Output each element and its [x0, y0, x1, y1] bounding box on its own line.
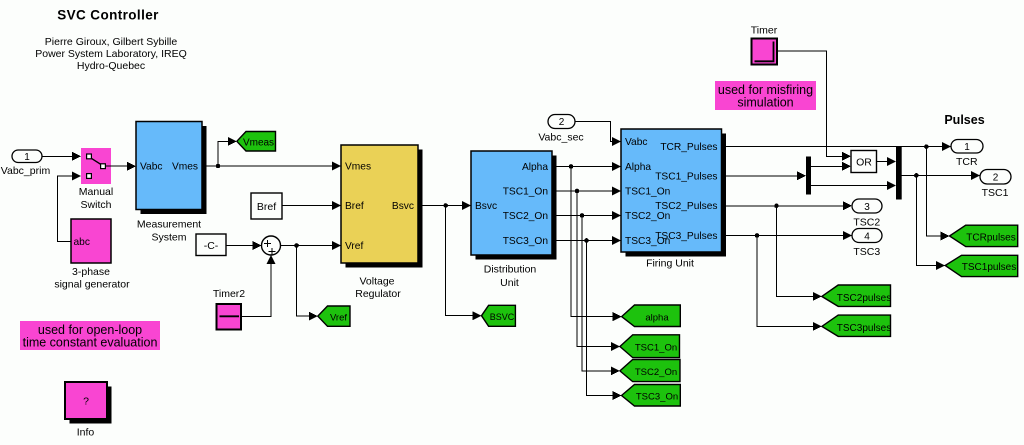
goto tag BSVC — [482, 305, 516, 326]
svg-text:Distribution: Distribution — [484, 264, 537, 276]
svg-text:TSC2_On: TSC2_On — [635, 367, 677, 378]
wire oval1 to manual switch in1 — [42, 152, 81, 161]
svg-text:Bsvc: Bsvc — [475, 201, 497, 212]
goto tag TSC3_On — [622, 385, 681, 407]
svg-text:2: 2 — [993, 172, 999, 183]
wire Bref to voltage regulator — [282, 201, 341, 210]
mux bar2 — [896, 146, 902, 200]
goto tag alpha — [622, 305, 681, 327]
svg-text:System: System — [151, 232, 186, 244]
svg-text:Voltage: Voltage — [359, 275, 394, 287]
wire voltage regulator Bsvc to distribution unit, branch to BSVC tag — [418, 201, 482, 320]
svg-text:Pierre Giroux, Gilbert Sybille: Pierre Giroux, Gilbert Sybille — [45, 36, 178, 48]
svg-text:TSC2_On: TSC2_On — [503, 211, 548, 222]
svg-text:TSC1: TSC1 — [982, 187, 1009, 199]
wire abc generator to manual switch in2 — [58, 172, 82, 242]
svg-text:TSC2_Pulses: TSC2_Pulses — [655, 201, 717, 212]
wire distribution Alpha to firing unit, branch to alpha tag — [552, 162, 622, 321]
svg-text:TSC3_On: TSC3_On — [503, 236, 548, 247]
svg-text:TSC1pulses: TSC1pulses — [962, 262, 1016, 273]
input port 1 Vabc_prim — [1, 150, 51, 177]
svg-text:TCR: TCR — [956, 156, 978, 168]
svg-text:Bref: Bref — [257, 201, 276, 213]
svg-text:Vref: Vref — [330, 312, 347, 323]
svg-text:simulation: simulation — [737, 96, 793, 110]
svg-text:BSVC: BSVC — [490, 312, 515, 322]
svg-text:Vmeas: Vmeas — [243, 137, 274, 148]
goto tag TSC1_On — [620, 335, 680, 358]
wire timer to OR input1 — [778, 51, 852, 161]
timer2 block — [213, 288, 245, 330]
output port 4 TSC3 — [852, 229, 882, 259]
svg-text:Vabc: Vabc — [140, 162, 162, 173]
wire bar1 out1 to OR input2 — [811, 162, 851, 171]
svg-text:-C-: -C- — [204, 240, 219, 252]
constant block -C- — [196, 234, 226, 256]
measurement system block — [136, 122, 207, 244]
svg-text:TSC1_On: TSC1_On — [635, 343, 677, 354]
wire bar2 to out2 TSC1, branch to TSC1pulses tag — [902, 171, 980, 270]
goto tag TCRpulses — [950, 225, 1018, 246]
svg-text:TSC2: TSC2 — [853, 217, 880, 229]
wire -C- to sum — [226, 241, 262, 250]
wire distribution TSC1_On to firing unit, branch to TSC1_On tag — [552, 187, 621, 352]
wire oval2 to firing unit Vabc — [575, 121, 621, 146]
svg-text:Info: Info — [77, 427, 95, 439]
svg-text:SVC Controller: SVC Controller — [57, 8, 159, 23]
svg-text:TSC1_On: TSC1_On — [625, 187, 670, 198]
timer block — [751, 25, 778, 65]
wire distribution TSC2_On to firing unit, branch to TSC2_On tag — [552, 211, 621, 375]
svg-text:1: 1 — [964, 142, 970, 153]
svg-text:TCR_Pulses: TCR_Pulses — [660, 142, 717, 153]
svg-text:Measurement: Measurement — [137, 219, 201, 231]
goto tag Vref — [318, 306, 350, 326]
annotation used for misfiring simulation — [715, 81, 816, 110]
svg-text:abc: abc — [74, 237, 90, 248]
wire firing TSC3_Pulses to out4 TSC3, branch to TSC3pulses tag — [722, 231, 853, 331]
svg-text:Vabc_sec: Vabc_sec — [538, 131, 583, 143]
wire OR out to mux bar2 — [877, 157, 897, 166]
svg-text:Alpha: Alpha — [522, 162, 548, 173]
firing unit block — [621, 129, 726, 270]
svg-text:signal generator: signal generator — [54, 279, 130, 291]
svg-text:TSC2pulses: TSC2pulses — [837, 293, 891, 304]
credits text — [35, 36, 187, 72]
manual switch — [79, 148, 113, 211]
goto tag TSC2pulses — [822, 285, 891, 306]
svg-text:Power System Laboratory, IREQ: Power System Laboratory, IREQ — [35, 48, 187, 60]
svg-text:TSC3pulses: TSC3pulses — [837, 323, 891, 334]
svg-text:alpha: alpha — [645, 313, 669, 324]
svg-text:Switch: Switch — [81, 199, 112, 211]
svg-text:Regulator: Regulator — [355, 288, 401, 300]
svg-text:3-phase: 3-phase — [72, 266, 110, 278]
voltage regulator block — [341, 145, 423, 300]
wire sum to voltage regulator Vref, branch to Vref tag — [281, 241, 342, 321]
wire manual switch out to measurement system — [106, 162, 136, 171]
input port 2 Vabc_sec — [538, 115, 583, 144]
constant block Bref — [251, 193, 282, 219]
wire timer2 to sum bottom — [242, 255, 276, 316]
svg-text:TSC1_On: TSC1_On — [503, 187, 548, 198]
svg-text:Vmes: Vmes — [172, 162, 198, 173]
svg-text:Vref: Vref — [345, 241, 363, 252]
svg-text:Manual: Manual — [79, 186, 113, 198]
wire firing TSC2_Pulses to out3 TSC2, branch to TSC2pulses tag — [722, 201, 853, 301]
svg-text:TSC3_On: TSC3_On — [636, 392, 678, 403]
wire firing TCR_Pulses to out1 TCR, branch to TCRpulses tag — [722, 142, 952, 240]
demux bar1 — [806, 157, 811, 195]
output port 2 TSC1 — [980, 170, 1011, 200]
3-phase signal generator abc — [54, 219, 130, 291]
svg-text:Vabc_prim: Vabc_prim — [1, 165, 51, 177]
svg-text:TSC3_Pulses: TSC3_Pulses — [655, 231, 717, 242]
svg-text:Alpha: Alpha — [625, 162, 651, 173]
svg-text:Vmes: Vmes — [345, 162, 371, 173]
svg-text:Unit: Unit — [500, 277, 519, 289]
svg-text:TCRpulses: TCRpulses — [966, 232, 1015, 243]
svg-text:2: 2 — [559, 117, 565, 128]
goto tag TSC1pulses — [945, 255, 1018, 276]
wire firing TSC1_Pulses to mux bar1 — [722, 171, 807, 180]
logical operator OR block — [851, 151, 877, 173]
svg-text:TSC2_On: TSC2_On — [625, 211, 670, 222]
sum block — [262, 236, 281, 255]
svg-text:?: ? — [83, 396, 89, 408]
output port 1 TCR — [951, 140, 983, 169]
svg-text:OR: OR — [856, 156, 872, 168]
goto tag TSC3pulses — [822, 315, 891, 336]
svg-text:TSC3: TSC3 — [853, 246, 880, 258]
svg-text:Firing Unit: Firing Unit — [646, 258, 694, 270]
svg-text:Bref: Bref — [345, 201, 364, 212]
wire bar1 out2 to mux bar2 — [811, 181, 896, 190]
svg-text:Timer2: Timer2 — [213, 288, 245, 300]
svg-text:4: 4 — [864, 231, 870, 242]
output port 3 TSC2 — [852, 199, 882, 229]
svg-text:Pulses: Pulses — [944, 113, 984, 127]
svg-text:TSC1_Pulses: TSC1_Pulses — [655, 171, 717, 182]
svg-text:Hydro-Quebec: Hydro-Quebec — [77, 60, 145, 72]
goto tag TSC2_On — [620, 360, 680, 382]
svg-text:Vabc: Vabc — [625, 137, 647, 148]
svg-text:3: 3 — [864, 202, 870, 213]
goto tag Vmeas — [237, 132, 276, 152]
svg-text:Bsvc: Bsvc — [392, 201, 414, 212]
wire measurement Vmes to voltage regulator, branch to Vmeas tag — [202, 137, 341, 171]
svg-text:time constant evaluation: time constant evaluation — [23, 336, 158, 350]
wire distribution TSC3_On to firing unit, branch to TSC3_On tag — [552, 236, 622, 400]
annotation used for open-loop time constant evaluation — [20, 321, 160, 350]
distribution unit block — [471, 151, 557, 289]
info block — [65, 382, 112, 439]
svg-text:1: 1 — [24, 152, 30, 163]
svg-text:Timer: Timer — [751, 25, 778, 37]
